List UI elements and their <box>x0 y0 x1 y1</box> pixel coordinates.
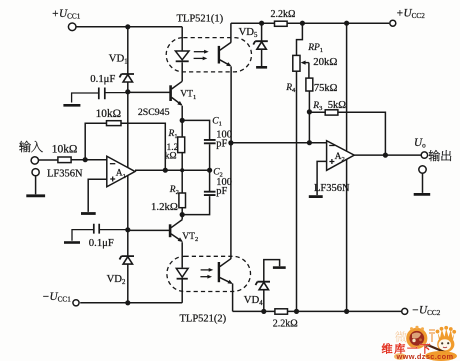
op-amp A2 <box>327 141 355 171</box>
wire feedback to output node <box>121 123 165 170</box>
svg-text:VD1: VD1 <box>109 52 128 65</box>
wire VD2 top <box>127 230 129 256</box>
wire VD1 top <box>127 27 129 74</box>
wire -Ucc1 rail <box>80 302 182 304</box>
wire RP1 lower to -Ucc2 rail <box>296 71 298 311</box>
wire VD1 bottom to node <box>127 82 129 92</box>
wire A2 supply vertical <box>346 23 348 311</box>
ground lower-left <box>64 241 80 244</box>
junction on A2 input wire <box>307 140 312 145</box>
ground upper-left <box>63 104 80 107</box>
diode VD4 <box>256 282 271 290</box>
junction A2 input tap <box>228 140 233 145</box>
label output 输出 <box>429 150 452 161</box>
ground input <box>26 194 45 197</box>
capacitor 0.1uF lower <box>99 229 128 231</box>
svg-text:VT1: VT1 <box>180 90 196 101</box>
svg-text:2SC945: 2SC945 <box>138 107 170 118</box>
wire VT2 base <box>128 229 170 231</box>
svg-text:2.2kΩ: 2.2kΩ <box>271 9 296 20</box>
junction A1 input node <box>83 157 88 162</box>
wire LED1 cathode to VT1 collector <box>181 62 183 81</box>
svg-text:kΩ: kΩ <box>165 152 177 162</box>
wire R10k to A1 inverting input <box>71 159 107 161</box>
svg-text:RP1: RP1 <box>307 43 323 54</box>
RP1 wiper arrow <box>304 62 309 64</box>
svg-text:LF356N: LF356N <box>47 169 83 180</box>
optocoupler arrows 2 <box>201 269 211 271</box>
junction R1-R2 midpoint <box>180 168 184 172</box>
op-amp A1 <box>107 156 135 187</box>
terminal -Ucc1 <box>73 300 79 306</box>
junction C2 top node <box>207 168 212 173</box>
wire R1 to output node <box>181 153 183 171</box>
junction VD5 <box>259 21 264 26</box>
capacitor C1 <box>204 140 216 143</box>
wire A2 noninverting to ground <box>317 161 327 195</box>
svg-text:R3: R3 <box>312 101 322 112</box>
potentiometer RP1 <box>293 55 300 71</box>
junction RP1 branch <box>300 21 305 26</box>
junction A2 supply <box>344 21 349 26</box>
svg-text:C1: C1 <box>212 116 222 127</box>
svg-text:TLP521(2): TLP521(2) <box>180 314 227 325</box>
wire input ground stub <box>35 176 37 194</box>
wire VD4 bottom <box>263 290 265 312</box>
optocoupler TLP521(2) outline <box>167 256 251 291</box>
resistor 10k feedback <box>107 121 122 126</box>
resistor R4 75k <box>306 78 313 91</box>
svg-text:LF356N: LF356N <box>314 183 350 194</box>
phototransistor TLP521(1) <box>218 46 220 64</box>
svg-text:pF: pF <box>216 186 227 197</box>
wire -Ucc2 rail <box>233 310 402 312</box>
wire LED2 cathode to -Ucc1 rail <box>181 280 183 303</box>
wire A2 inverting input <box>231 142 327 144</box>
wire junction down to A2 input wire <box>308 112 310 143</box>
svg-text:0.1μF: 0.1μF <box>89 237 114 249</box>
junction output/feedback <box>383 153 388 158</box>
svg-text:10kΩ: 10kΩ <box>96 108 122 120</box>
resistor 2.2k top <box>275 21 288 26</box>
junction RP1/-Ucc2 <box>294 309 299 314</box>
junction -Ucc1/VD2 <box>125 300 130 305</box>
wire R3 to feedback column <box>338 112 386 155</box>
wire VD2 bottom <box>127 264 129 303</box>
ground output <box>414 193 431 196</box>
wire supply column below A1 <box>127 175 129 229</box>
svg-text:R4: R4 <box>285 83 296 94</box>
wire VT2 emitter to LED2 <box>181 242 183 268</box>
svg-text:R1: R1 <box>168 129 178 140</box>
junction VD1/VT1 base/C bypass <box>125 89 130 94</box>
wire phototransistor1 collector to +Ucc2 rail <box>230 23 232 42</box>
svg-text:1.2kΩ: 1.2kΩ <box>151 201 178 213</box>
svg-text:VD2: VD2 <box>107 273 126 286</box>
svg-text:2.2kΩ: 2.2kΩ <box>273 318 298 329</box>
diode VD1 <box>120 74 135 82</box>
ground A1 <box>81 212 96 215</box>
junction R2/C2/VT2 collector <box>180 212 185 217</box>
wire A1 output <box>135 169 210 171</box>
wire phototransistor2 emitter to -Ucc2 rail <box>232 284 234 312</box>
svg-text:−UCC2: −UCC2 <box>412 305 441 318</box>
diode VD2 <box>120 256 135 264</box>
terminal input ground <box>32 169 39 176</box>
ground A2 <box>309 195 323 198</box>
resistor R3 5k <box>309 111 325 113</box>
ground VD4 <box>273 266 286 269</box>
wire feedback up <box>85 123 106 159</box>
watermark dzsc logo <box>382 326 457 361</box>
resistor 2.2k bottom <box>275 309 288 314</box>
resistor 10k input <box>58 157 71 163</box>
wire VT1 base <box>128 91 171 93</box>
wire A1 noninverting to ground <box>88 179 107 212</box>
junction feedback tap <box>163 168 168 173</box>
svg-text:R2: R2 <box>169 185 179 196</box>
wire A2 output <box>354 154 421 156</box>
LED TLP521(1) <box>175 51 189 61</box>
capacitor 0.1uF upper <box>105 92 128 94</box>
svg-text:0.1μF: 0.1μF <box>90 73 115 85</box>
svg-text:75kΩ: 75kΩ <box>314 83 338 94</box>
wire +Ucc2 rail <box>231 22 389 24</box>
svg-text:TLP521(1): TLP521(1) <box>177 13 224 24</box>
optocoupler TLP521(1) outline <box>166 38 251 72</box>
junction VD4/-Ucc2 <box>261 309 266 314</box>
wire input to R10k <box>39 159 58 161</box>
wire to C1 <box>182 120 209 139</box>
junction VT1 emitter/R1/C1 <box>180 118 185 123</box>
svg-text:20kΩ: 20kΩ <box>313 56 337 68</box>
terminal input <box>31 157 38 164</box>
VD5 bottom bar <box>256 66 267 69</box>
optocoupler arrows 1 <box>194 51 206 53</box>
wire +Ucc1 rail to LED column <box>76 26 182 28</box>
phototransistor TLP521(2) <box>218 262 220 282</box>
svg-text:Uo: Uo <box>414 137 426 150</box>
junction R4/R3 <box>307 109 312 114</box>
LED TLP521(2) <box>176 268 188 278</box>
capacitor C2 <box>209 170 211 191</box>
terminal -Ucc2 <box>402 308 408 314</box>
terminal +Ucc1 <box>68 23 76 31</box>
junction +Ucc1/VD1 <box>125 24 130 29</box>
svg-text:pF: pF <box>216 138 227 149</box>
wire C1 to C2 node <box>209 144 211 170</box>
resistor R1 <box>181 120 183 137</box>
terminal output ground <box>419 166 426 173</box>
junction VT2 base node <box>125 227 130 232</box>
svg-text:VD5: VD5 <box>239 26 258 39</box>
wire junction column to phototransistor2 <box>230 143 232 259</box>
wire VT1 emitter to R1 node <box>181 106 183 121</box>
wire R2 to VT2 collector node <box>181 208 183 215</box>
terminal output Uo <box>421 152 427 158</box>
terminal +Ucc2 <box>390 20 396 26</box>
wire RP1 from +Ucc2 rail <box>297 23 303 55</box>
wire wiper to R4 <box>308 63 310 79</box>
resistor R2 <box>181 170 183 193</box>
wire VD4 top to ground elbow <box>264 260 280 282</box>
svg-text:+UCC2: +UCC2 <box>396 7 425 20</box>
svg-text:www.dzsc.com: www.dzsc.com <box>396 352 454 361</box>
label input 输入 <box>19 141 43 153</box>
junction A2 supply/-Ucc2 <box>344 309 349 314</box>
svg-text:−UCC1: −UCC1 <box>42 291 71 304</box>
svg-text:VD4: VD4 <box>244 294 263 307</box>
svg-text:10kΩ: 10kΩ <box>52 144 78 156</box>
wire output ground stub <box>422 174 424 193</box>
wire phototransistor1 emitter down <box>230 67 232 143</box>
wire LED1 anode from +Ucc1 rail <box>181 27 183 51</box>
transistor VT1 <box>169 85 172 101</box>
wire R4 to R3 junction <box>308 91 310 112</box>
wire supply column to A1 <box>127 92 129 168</box>
transistor VT2 <box>181 215 183 220</box>
svg-text:+UCC1: +UCC1 <box>52 8 81 21</box>
diode VD5 <box>261 23 263 41</box>
svg-text:VT2: VT2 <box>182 232 198 243</box>
